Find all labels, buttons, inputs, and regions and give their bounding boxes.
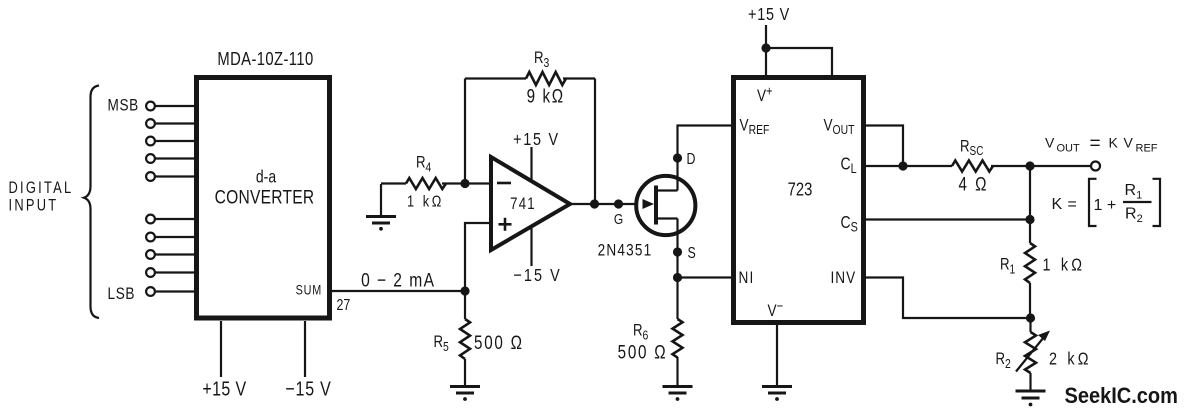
svg-text:SeekIC.com: SeekIC.com: [1065, 384, 1178, 408]
terminal: input bit 1 (MSB): [146, 102, 197, 111]
terminal: input bit 3: [146, 137, 197, 146]
wire: +15V branch to VC: [766, 48, 832, 77]
terminal: input bit 9: [146, 268, 197, 277]
ground: at R4 left: [366, 184, 396, 231]
svg-text:G: G: [614, 211, 623, 228]
wire: node A to op-amp non-inverting input: [465, 223, 491, 291]
svg-text:INV: INV: [831, 269, 857, 288]
svg-text:SUM: SUM: [296, 282, 322, 297]
svg-text:R2: R2: [996, 350, 1011, 372]
node G terminal dot: [614, 199, 623, 208]
wire: +15V to V+ pin: [765, 25, 767, 77]
wire: converter -15V leg: [304, 321, 306, 377]
svg-text:CS: CS: [841, 214, 858, 235]
svg-text:R1: R1: [1125, 182, 1143, 202]
wire: feedback top left: [465, 77, 526, 79]
svg-text:723: 723: [788, 179, 813, 200]
svg-text:−15 V: −15 V: [513, 266, 561, 286]
resistor RSC: [952, 161, 993, 172]
svg-text:2N4351: 2N4351: [598, 241, 653, 260]
wire: op-amp -15V supply: [530, 228, 532, 266]
svg-text:9 kΩ: 9 kΩ: [527, 85, 565, 107]
svg-text:R3: R3: [534, 49, 550, 71]
wire: node B to op-amp inverting input: [465, 182, 491, 184]
junction: RSC / divider bus: [1025, 161, 1034, 170]
terminal: input bit 6: [146, 215, 197, 224]
svg-text:4 Ω: 4 Ω: [958, 173, 988, 195]
svg-text:+15 V: +15 V: [202, 378, 246, 400]
node S terminal dot: [673, 247, 682, 256]
resistor R2 (variable): [1016, 318, 1050, 390]
terminal: input bit 7: [146, 233, 197, 242]
svg-text:D: D: [687, 150, 696, 168]
terminal: input bit 4: [146, 154, 197, 163]
svg-text:+15 V: +15 V: [513, 130, 560, 150]
svg-text:VOUT: VOUT: [824, 116, 855, 137]
wire: V- pin to ground: [776, 323, 778, 387]
svg-text:1 +: 1 +: [1094, 197, 1117, 214]
wire: converter +15V leg: [220, 321, 222, 377]
svg-text:500 Ω: 500 Ω: [618, 341, 668, 363]
svg-text:−15 V: −15 V: [285, 378, 331, 400]
svg-text:500 Ω: 500 Ω: [474, 331, 524, 353]
svg-text:V+: V+: [757, 83, 773, 105]
svg-text:R6: R6: [633, 321, 649, 343]
ground: below R2: [1016, 391, 1046, 406]
wire: VOUT pin to CL bus: [864, 126, 903, 167]
svg-text:CONVERTER: CONVERTER: [215, 186, 315, 208]
svg-text:+15 V: +15 V: [748, 5, 790, 25]
svg-text:1 kΩ: 1 kΩ: [407, 193, 444, 211]
junction: node B (R4 / R3 / op-amp -): [460, 179, 469, 188]
svg-text:R2: R2: [1125, 206, 1143, 226]
svg-text:MDA-10Z-110: MDA-10Z-110: [217, 48, 313, 69]
junction: output / feedback: [590, 199, 599, 208]
wire: drain to VREF pin: [678, 126, 732, 159]
junction: +15V branch: [761, 43, 770, 52]
wire: SUM output to node A: [332, 290, 465, 292]
transistor Q1 2N4351: [636, 158, 695, 252]
node: DIGITAL INPUT label: [9, 180, 74, 215]
junction: VOUT / CL: [898, 161, 907, 170]
junction: source / NI / R6: [673, 273, 682, 282]
wire: CS pin to divider bus: [864, 218, 1030, 220]
svg-text:DIGITAL: DIGITAL: [9, 180, 74, 198]
wire: INV pin to divider tap: [864, 278, 1031, 319]
svg-text:d-a: d-a: [256, 168, 276, 187]
wire: NI node to 723: [678, 276, 732, 278]
terminal: input bit 5: [146, 172, 197, 181]
junction: CS / divider: [1025, 215, 1034, 224]
svg-text:MSB: MSB: [108, 96, 139, 115]
svg-text:VREF: VREF: [739, 116, 769, 137]
svg-text:R5: R5: [434, 333, 450, 355]
svg-text:R4: R4: [416, 153, 432, 175]
wire: CL pin to RSC: [864, 165, 952, 167]
svg-text:0 − 2 mA: 0 − 2 mA: [361, 269, 435, 291]
node: d-a CONVERTER label: [215, 168, 315, 208]
svg-text:S: S: [688, 244, 696, 262]
resistor R1: [1025, 243, 1035, 318]
wire: source down to NI node: [676, 252, 678, 278]
svg-text:K: K: [1052, 196, 1063, 213]
terminal: input bit 8: [146, 250, 197, 259]
resistor R3: [526, 72, 566, 85]
terminal: VOUT output: [1091, 162, 1100, 171]
resistor R5: [460, 291, 470, 387]
ground: below R5: [450, 387, 480, 401]
svg-text:VOUT=KVREF: VOUT=KVREF: [1045, 134, 1158, 155]
wire: divider bus down to R1: [1029, 166, 1031, 243]
svg-text:=: =: [1068, 196, 1077, 213]
regulator U3 723 box: [734, 78, 864, 323]
svg-text:CL: CL: [841, 155, 857, 176]
svg-text:NI: NI: [739, 269, 755, 288]
wire: feedback loop left leg: [464, 79, 466, 184]
node: K = [1 + R1/R2] equation: [1052, 179, 1161, 226]
svg-text:27: 27: [337, 296, 351, 314]
wire: feedback top right: [563, 77, 595, 79]
wire: feedback right leg down to output: [594, 79, 596, 205]
junction: node A (SUM / R5 / op-amp +): [460, 286, 469, 295]
terminal: input bit 2: [146, 119, 197, 128]
svg-text:741: 741: [510, 195, 536, 214]
resistor R6: [673, 278, 683, 387]
svg-text:INPUT: INPUT: [9, 197, 59, 215]
svg-text:1 kΩ: 1 kΩ: [1043, 255, 1086, 275]
converter U1 MDA-10Z-110 box: [197, 78, 330, 319]
wire: RSC to output terminal: [991, 165, 1091, 167]
svg-text:LSB: LSB: [108, 285, 136, 304]
op-amp U2 741: [491, 157, 570, 250]
ground: below 723 V-: [762, 387, 792, 401]
wire: op-amp +15V supply: [530, 147, 532, 181]
svg-text:RSC: RSC: [960, 137, 983, 158]
terminal: input bit 10 (LSB): [146, 287, 197, 296]
resistor R4: [381, 178, 465, 189]
junction: R1 / R2 / INV tap: [1026, 313, 1035, 322]
ground: below R6: [663, 387, 693, 401]
wire: op-amp output to gate: [570, 203, 645, 205]
node D terminal dot: [673, 153, 682, 162]
svg-text:2 kΩ: 2 kΩ: [1049, 349, 1092, 369]
brace: digital input group: [84, 86, 99, 319]
svg-text:R1: R1: [1000, 255, 1015, 277]
svg-text:V−: V−: [768, 298, 784, 320]
